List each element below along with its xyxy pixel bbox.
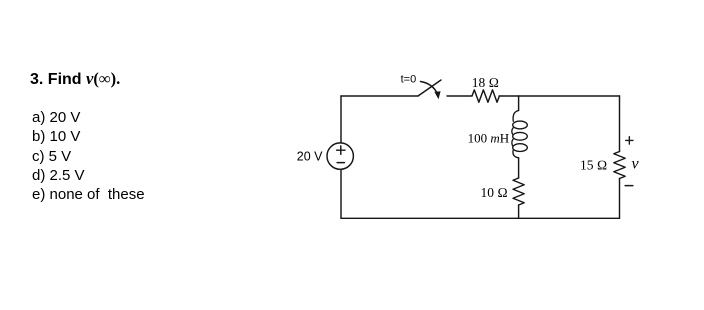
wire: left vertical upper segment [340,96,342,142]
switch t=0 [418,80,441,99]
label 10 ohm [480,185,507,200]
wire: switch to resistor [447,95,472,97]
inductor 100 mH [512,111,527,158]
svg-text:20 V: 20 V [297,149,323,163]
resistor 18 ohm [472,90,499,102]
label t=0 [401,73,417,85]
resistor 15 ohm [614,152,625,179]
svg-text:10 Ω: 10 Ω [480,185,507,200]
svg-text:15 Ω: 15 Ω [580,158,607,173]
wire: resistor to top right corner [499,95,619,97]
answer options [32,108,145,205]
problem title [30,71,120,88]
wire: resistor 10 ohm to bottom [518,205,520,218]
node: top junction of middle branch [518,96,520,111]
svg-text:v: v [632,155,640,172]
label 18 ohm [472,75,499,90]
label plus sign of v [626,137,633,144]
label 20 V [297,149,323,163]
label v [632,155,640,172]
label 15 ohm [580,158,607,173]
label 100 mH [468,130,510,145]
wire: inductor to resistor 10 ohm [518,158,520,178]
wire: right vertical lower segment [619,179,621,219]
svg-text:t=0: t=0 [401,73,417,85]
wire: top left horizontal to switch [341,95,418,97]
wire: left vertical lower segment [340,170,342,219]
wire: right vertical upper segment [619,96,621,152]
label minus sign of v [625,185,633,187]
voltage source 20 V [327,143,353,169]
svg-text:18 Ω: 18 Ω [472,75,499,90]
resistor 10 ohm [513,178,524,205]
svg-text:100 mH: 100 mH [468,130,510,145]
wire: bottom horizontal [341,217,620,219]
